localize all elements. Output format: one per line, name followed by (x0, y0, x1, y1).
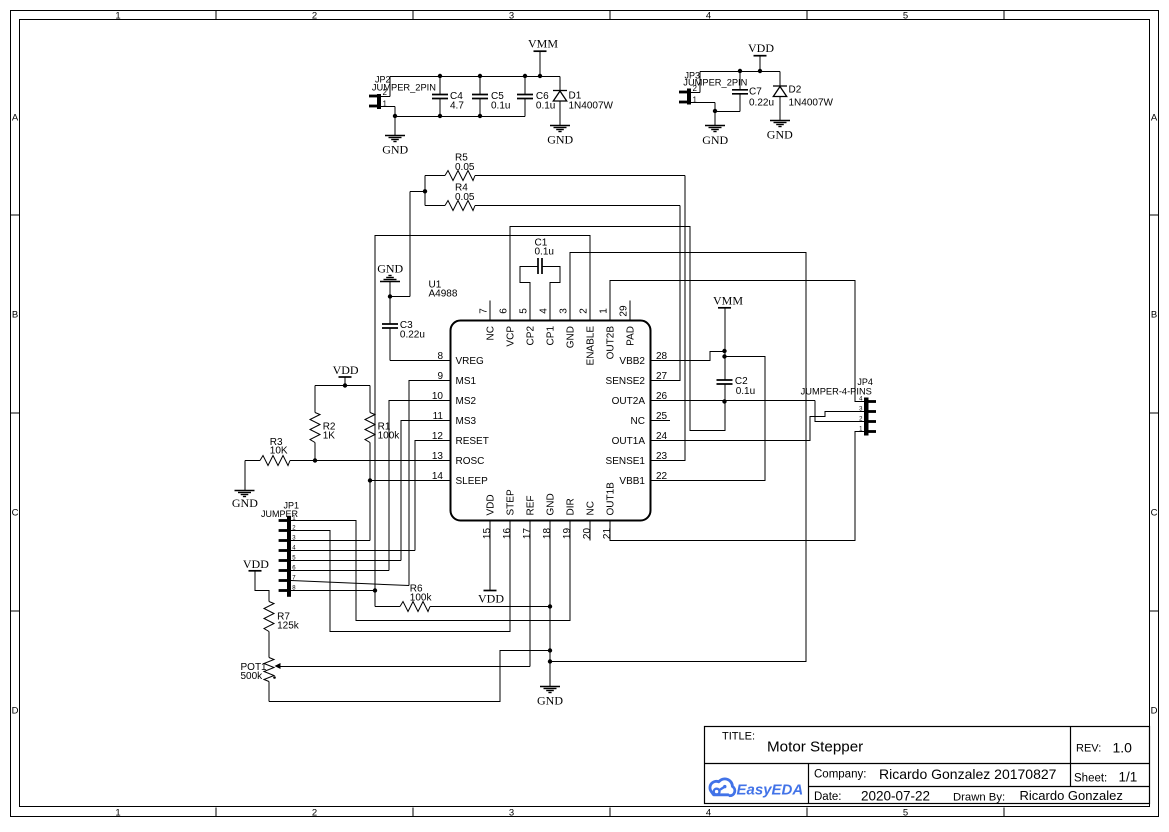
svg-text:14: 14 (432, 471, 444, 482)
svg-text:15: 15 (482, 528, 493, 540)
svg-text:0.05: 0.05 (455, 162, 475, 173)
title block (705, 727, 1150, 804)
wire OUT2B to JP4 pin4 (610, 281, 864, 402)
ground below JP3 (705, 126, 725, 132)
junction C4 top (438, 74, 442, 78)
capacitor C5 (472, 95, 488, 99)
capacitor C2 (717, 380, 733, 384)
svg-text:PAD: PAD (626, 326, 637, 346)
resistor R4 body (445, 201, 475, 211)
U1 left pin stubs (430, 361, 450, 481)
svg-text:OUT1B: OUT1B (606, 482, 617, 516)
wire SENSE2 up to R4 (670, 206, 680, 381)
svg-text:Sheet:: Sheet: (1074, 773, 1107, 785)
wire VMM to VBB1 (670, 357, 765, 481)
wire VMM rail (390, 76, 560, 78)
svg-text:29: 29 (619, 305, 630, 317)
ground below JP2 (385, 136, 405, 142)
wire IC GND pin3 net (550, 253, 806, 662)
capacitor C3 (382, 324, 398, 328)
svg-text:2: 2 (693, 84, 698, 93)
connector JP1 (279, 516, 291, 597)
svg-text:GND: GND (767, 128, 793, 142)
svg-text:100k: 100k (410, 593, 433, 604)
junction C5 bottom (478, 114, 482, 118)
op-amp U1 A4988 IC body (451, 321, 651, 521)
svg-text:0.1u: 0.1u (736, 386, 755, 397)
wire JP3 pin1 (691, 102, 715, 104)
svg-text:B: B (12, 310, 18, 321)
ground below R3 (235, 491, 255, 497)
svg-text:1N4007W: 1N4007W (789, 98, 834, 109)
svg-text:2: 2 (579, 308, 590, 314)
junction R1 SLEEP (368, 478, 372, 482)
svg-text:500k: 500k (241, 671, 264, 682)
svg-text:0.1u: 0.1u (536, 101, 555, 112)
svg-text:MS2: MS2 (456, 396, 477, 407)
U1 bottom pin stubs (490, 521, 610, 541)
capacitor C7 (732, 90, 748, 94)
resistor R6 body (400, 602, 430, 612)
svg-text:A: A (1151, 113, 1158, 124)
svg-text:5: 5 (903, 10, 908, 21)
junction C5 top (478, 74, 482, 78)
resistor R3 body (260, 456, 290, 466)
svg-text:MS3: MS3 (456, 416, 477, 427)
power VMM (534, 50, 547, 52)
svg-text:EasyEDA: EasyEDA (737, 782, 804, 799)
wire R7 to POT1 (268, 632, 270, 658)
svg-text:13: 13 (432, 451, 444, 462)
wire VMM join (724, 352, 726, 357)
wire JP1 pin7 to MS1 (291, 581, 409, 586)
junction C6 top (523, 74, 527, 78)
wire MS2 down (389, 401, 430, 571)
svg-text:18: 18 (542, 528, 553, 540)
svg-text:VREG: VREG (456, 356, 485, 367)
svg-text:ROSC: ROSC (456, 456, 485, 467)
wire JP1 pin3 to R1 (291, 540, 370, 542)
wire MS3 down (401, 421, 430, 561)
svg-text:3: 3 (509, 807, 514, 818)
wire VCP net (510, 227, 725, 431)
wire REF to POT1 wiper (278, 666, 530, 668)
wire VDD stem (759, 56, 761, 72)
wire D1 top lead (559, 77, 561, 91)
wire CP1 to C1 (542, 267, 560, 301)
wire R6 right lead (430, 606, 550, 608)
wire C5 top lead (479, 77, 481, 95)
wire POT1 bottom lead (268, 682, 270, 702)
svg-text:4: 4 (706, 10, 711, 21)
svg-text:GND: GND (546, 493, 557, 515)
wire SENSE1 up to R5 (670, 176, 685, 461)
svg-text:VDD: VDD (486, 494, 497, 515)
junction ENABLE R6 JP1 (373, 588, 377, 592)
junction JP3 gnd (713, 109, 717, 113)
svg-text:125k: 125k (277, 621, 300, 632)
svg-text:SLEEP: SLEEP (456, 476, 489, 487)
power VDD pin15 (484, 590, 497, 592)
svg-text:0.22u: 0.22u (749, 98, 774, 109)
svg-text:OUT2B: OUT2B (606, 326, 617, 360)
wire VDD rail (700, 71, 780, 73)
wire gnd link (715, 111, 740, 113)
wire C5 bottom lead (479, 99, 481, 117)
svg-text:0.22u: 0.22u (400, 330, 425, 341)
wire sense common to gnd (390, 296, 410, 298)
wire VDD to R7 (255, 571, 269, 602)
junction R2 ROSC (313, 458, 317, 462)
wire up to VMM rail (389, 77, 391, 97)
wire C3 bottom lead to VREG (389, 329, 391, 361)
svg-text:VMM: VMM (713, 294, 743, 308)
svg-text:22: 22 (656, 471, 668, 482)
svg-text:17: 17 (522, 528, 533, 540)
svg-text:JUMPER-4-PINS: JUMPER-4-PINS (801, 387, 872, 397)
svg-text:0.1u: 0.1u (491, 101, 510, 112)
svg-text:5: 5 (519, 308, 530, 314)
svg-text:JUMPER_2PIN: JUMPER_2PIN (372, 83, 436, 93)
power VDD (754, 55, 767, 57)
svg-text:7: 7 (479, 308, 490, 314)
svg-text:9: 9 (437, 371, 443, 382)
connector JP4 (864, 398, 876, 436)
svg-text:6: 6 (499, 308, 510, 314)
svg-text:Ricardo Gonzalez 20170827: Ricardo Gonzalez 20170827 (879, 766, 1057, 782)
resistor R7 body (264, 602, 274, 632)
power VMM mid (718, 307, 731, 309)
wire ROSC pin 13 (290, 460, 430, 462)
svg-text:VDD: VDD (478, 592, 504, 606)
wire R2 top lead (314, 386, 316, 413)
svg-text:RESET: RESET (456, 436, 489, 447)
svg-text:GND: GND (547, 133, 573, 147)
svg-text:10: 10 (432, 391, 444, 402)
junction JP2 gnd (393, 114, 397, 118)
svg-text:NC: NC (486, 326, 497, 340)
svg-text:REF: REF (526, 496, 537, 516)
svg-text:A: A (12, 113, 19, 124)
svg-text:26: 26 (656, 391, 668, 402)
wire OUT1A to JP4 pin3 (670, 412, 864, 441)
ground above C3 (380, 276, 400, 282)
svg-text:MS1: MS1 (456, 376, 477, 387)
svg-text:1N4007W: 1N4007W (569, 101, 614, 112)
svg-text:VDD: VDD (243, 557, 269, 571)
wire R5 left lead (425, 175, 445, 177)
junction VMM rail (538, 74, 542, 78)
svg-text:28: 28 (656, 351, 668, 362)
svg-text:25: 25 (656, 411, 668, 422)
svg-text:1.0: 1.0 (1113, 740, 1133, 756)
junction gnd right (548, 659, 552, 663)
wire VBB2 to VMM (670, 352, 725, 361)
svg-text:NC: NC (631, 416, 645, 427)
svg-text:1: 1 (693, 96, 698, 105)
wire R6 left lead up (374, 591, 376, 607)
wire JP3 pin2 (691, 92, 700, 94)
wire RESET down (415, 441, 430, 551)
resistor R2 body (310, 413, 320, 443)
svg-text:4: 4 (539, 308, 550, 314)
U1 right pin stubs (650, 361, 670, 481)
wire C7 bottom lead (739, 94, 741, 112)
ground below D2 (770, 121, 790, 127)
svg-text:VDD: VDD (748, 41, 774, 55)
svg-text:GND: GND (382, 143, 408, 157)
svg-text:1: 1 (115, 807, 120, 818)
svg-text:10K: 10K (270, 446, 288, 457)
wire JP2 pin2 to VMM rail (381, 96, 390, 98)
svg-text:GND: GND (377, 262, 403, 276)
svg-text:23: 23 (656, 451, 668, 462)
wire MS1 down (409, 381, 430, 586)
wire to ground (394, 117, 396, 136)
svg-text:CP1: CP1 (546, 326, 557, 346)
svg-text:SENSE2: SENSE2 (606, 376, 646, 387)
svg-text:D: D (12, 706, 19, 717)
junction C7 top (738, 69, 742, 73)
svg-text:21: 21 (602, 528, 613, 540)
svg-text:5: 5 (903, 807, 908, 818)
resistor R1 body (365, 413, 375, 443)
junction R6 GND net (548, 604, 552, 608)
svg-text:Date:: Date: (814, 791, 842, 803)
junction VDD rail (758, 69, 762, 73)
svg-text:C: C (1151, 508, 1158, 519)
svg-text:3: 3 (509, 10, 514, 21)
svg-text:GND: GND (232, 496, 258, 510)
junction VMM C2 (722, 354, 726, 358)
wire JP2 pin1 (381, 106, 395, 108)
potentiometer POT1 body (264, 658, 274, 682)
svg-text:TITLE:: TITLE: (722, 731, 755, 743)
svg-text:2: 2 (383, 88, 388, 97)
wire C6 top lead (524, 77, 526, 95)
wire C2 top lead (724, 357, 726, 381)
svg-text:4.7: 4.7 (450, 101, 464, 112)
svg-text:VBB1: VBB1 (619, 476, 645, 487)
svg-text:OUT1A: OUT1A (612, 436, 646, 447)
svg-text:0.1u: 0.1u (535, 247, 554, 258)
wire VDD pin 15 (489, 521, 491, 591)
wire R5 to SENSE1 column (475, 175, 685, 177)
ground below IC (540, 687, 560, 693)
svg-text:4: 4 (706, 807, 711, 818)
svg-text:12: 12 (432, 431, 444, 442)
wire VREG pin 8 (390, 360, 430, 362)
wire VMM stem mid (724, 308, 726, 352)
capacitor C6 (517, 95, 533, 99)
svg-text:ENABLE: ENABLE (586, 326, 597, 366)
wire JP1 pin1 to DIR (291, 521, 570, 621)
svg-text:CP2: CP2 (526, 326, 537, 346)
svg-text:SENSE1: SENSE1 (606, 456, 646, 467)
wire JP1 pin8 to ENABLE (291, 590, 375, 592)
connector JP2 (369, 94, 381, 109)
wire CP2 to C1 (520, 267, 538, 301)
wire R4 left lead (425, 205, 445, 207)
connector JP3 (679, 89, 691, 105)
wire D2 top lead (779, 72, 781, 87)
svg-text:VMM: VMM (528, 37, 558, 51)
svg-text:3: 3 (559, 308, 570, 314)
svg-text:REV:: REV: (1076, 743, 1101, 755)
wire VMM stem (539, 52, 541, 77)
wire R1 top lead (369, 386, 371, 413)
svg-text:0.05: 0.05 (455, 192, 475, 203)
svg-text:2020-07-22: 2020-07-22 (861, 789, 930, 804)
wire R3 left lead (245, 460, 260, 462)
wire JP1 pin4 to RESET (291, 550, 415, 552)
junction VMM VBB2 (722, 349, 726, 353)
wire ENABLE net (375, 236, 590, 591)
wire sense common down (409, 192, 411, 297)
svg-text:VBB2: VBB2 (619, 356, 645, 367)
svg-text:Drawn By:: Drawn By: (953, 792, 1005, 804)
wire R4 to SENSE2 column (475, 205, 680, 207)
wire JP1 pin5 to MS3 (291, 560, 401, 562)
U1 top pin stubs (490, 301, 630, 321)
capacitor C1 (538, 258, 542, 274)
wire JP1 pin6 to MS2 (291, 570, 389, 572)
wire up to VDD rail (699, 72, 701, 93)
svg-text:JP4: JP4 (857, 377, 873, 387)
wire C4 top lead (439, 77, 441, 95)
resistor R5 body (445, 171, 475, 181)
svg-text:24: 24 (656, 431, 668, 442)
svg-text:D: D (1151, 706, 1158, 717)
svg-text:GND: GND (537, 694, 563, 708)
wire REF down (529, 521, 531, 667)
svg-text:1: 1 (599, 308, 610, 314)
wire VDD stem left (344, 378, 346, 386)
junction C2 OUT2A VCP (722, 399, 726, 403)
svg-text:16: 16 (502, 528, 513, 540)
wire R1 R2 tops (315, 385, 370, 387)
wire D1 bottom lead (559, 102, 561, 126)
svg-text:STEP: STEP (506, 489, 517, 515)
wire OUT1B to JP4 pin1 (610, 432, 864, 541)
junction gnd pot (548, 648, 552, 652)
svg-text:Motor Stepper: Motor Stepper (767, 739, 863, 756)
wire ground to junction (389, 282, 391, 297)
wire OUT2A (670, 400, 815, 402)
wire SLEEP pin 14 (370, 480, 430, 482)
diode D2 (773, 86, 787, 97)
svg-text:C7: C7 (749, 87, 762, 98)
svg-text:19: 19 (562, 528, 573, 540)
wire OUT2A to JP4 pin2 (815, 401, 864, 422)
power VDD pot (249, 570, 262, 572)
wire JP1 pin2 to STEP (291, 521, 510, 632)
svg-text:GND: GND (702, 133, 728, 147)
junction gnd node above C3 (388, 294, 392, 298)
svg-text:C: C (12, 508, 19, 519)
svg-text:11: 11 (433, 411, 444, 422)
svg-text:OUT2A: OUT2A (612, 396, 646, 407)
power VDD left (339, 376, 352, 378)
wire R4 R5 left join (424, 176, 426, 206)
capacitor C4 (432, 95, 448, 99)
svg-text:27: 27 (656, 371, 668, 382)
EasyEDA logo (710, 779, 735, 796)
svg-text:NC: NC (586, 501, 597, 515)
wire gnd rail (395, 116, 525, 118)
svg-text:A4988: A4988 (429, 289, 458, 300)
wire sense common (410, 191, 425, 193)
wire POT1 bottom to gnd (269, 651, 550, 702)
wire R3 to ground (244, 461, 246, 491)
svg-text:D2: D2 (789, 85, 802, 96)
svg-text:GND: GND (566, 326, 577, 348)
wire C3 top lead (389, 297, 391, 325)
svg-text:B: B (1151, 310, 1157, 321)
svg-text:2: 2 (312, 807, 317, 818)
svg-text:1: 1 (383, 100, 388, 109)
svg-text:1K: 1K (323, 431, 336, 442)
wire C4 bottom lead (439, 99, 441, 117)
svg-text:8: 8 (437, 351, 443, 362)
POT1 wiper arrow (275, 663, 281, 669)
junction VDD R1 R2 (343, 383, 347, 387)
svg-text:20: 20 (582, 528, 593, 540)
wire JP3 pin1 down (714, 103, 716, 112)
wire C2 bottom lead (724, 385, 726, 402)
wire C7 top lead (739, 72, 741, 90)
svg-text:DIR: DIR (566, 498, 577, 515)
svg-text:1/1: 1/1 (1119, 770, 1138, 785)
junction C4 bottom (438, 114, 442, 118)
junction R4 R5 sense common (423, 189, 427, 193)
ground below D1 (550, 126, 570, 132)
wire JP2 pin1 down (394, 107, 396, 117)
wire D2 bottom lead (779, 97, 781, 121)
wire R6 left lead (375, 606, 400, 608)
diode D1 (553, 91, 567, 102)
svg-text:1: 1 (115, 10, 120, 21)
wire R2 bottom lead (314, 443, 316, 461)
wire R1 bottom to JP1 pin3 (369, 443, 371, 541)
svg-text:VCP: VCP (506, 326, 517, 347)
wire IC GND pin18 down (549, 521, 551, 687)
wire to ground (714, 112, 716, 126)
wire C6 bottom lead (524, 99, 526, 117)
svg-text:2: 2 (312, 10, 317, 21)
svg-text:VDD: VDD (333, 363, 359, 377)
svg-text:Company:: Company: (814, 769, 866, 781)
svg-text:Ricardo Gonzalez: Ricardo Gonzalez (1020, 788, 1123, 803)
